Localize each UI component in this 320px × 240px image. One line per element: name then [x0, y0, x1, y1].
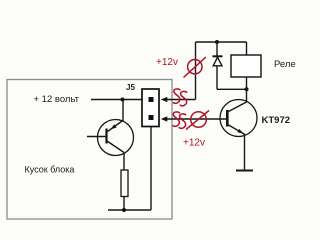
svg-text:Реле: Реле: [274, 59, 296, 70]
svg-text:+12v: +12v: [183, 138, 205, 149]
svg-text:+12v: +12v: [156, 57, 178, 68]
svg-text:J5: J5: [126, 83, 135, 92]
svg-text:+ 12 вольт: + 12 вольт: [34, 94, 80, 105]
svg-text:KT972: KT972: [262, 115, 291, 126]
svg-text:Кусок блока: Кусок блока: [25, 165, 75, 175]
